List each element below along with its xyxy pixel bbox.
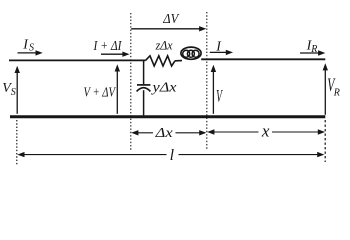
- svg-text:R: R: [333, 87, 340, 98]
- svg-text:zΔx: zΔx: [155, 38, 173, 52]
- svg-text:R: R: [310, 44, 317, 55]
- svg-text:V + ΔV: V + ΔV: [84, 85, 117, 100]
- svg-text:I + ΔI: I + ΔI: [93, 39, 123, 54]
- svg-text:S: S: [11, 87, 16, 98]
- svg-text:Δx: Δx: [155, 126, 174, 141]
- svg-text:S: S: [29, 43, 34, 54]
- svg-text:x: x: [261, 122, 270, 141]
- svg-text:yΔx: yΔx: [150, 79, 176, 94]
- svg-text:ΔV: ΔV: [162, 12, 179, 27]
- svg-text:l: l: [170, 147, 175, 164]
